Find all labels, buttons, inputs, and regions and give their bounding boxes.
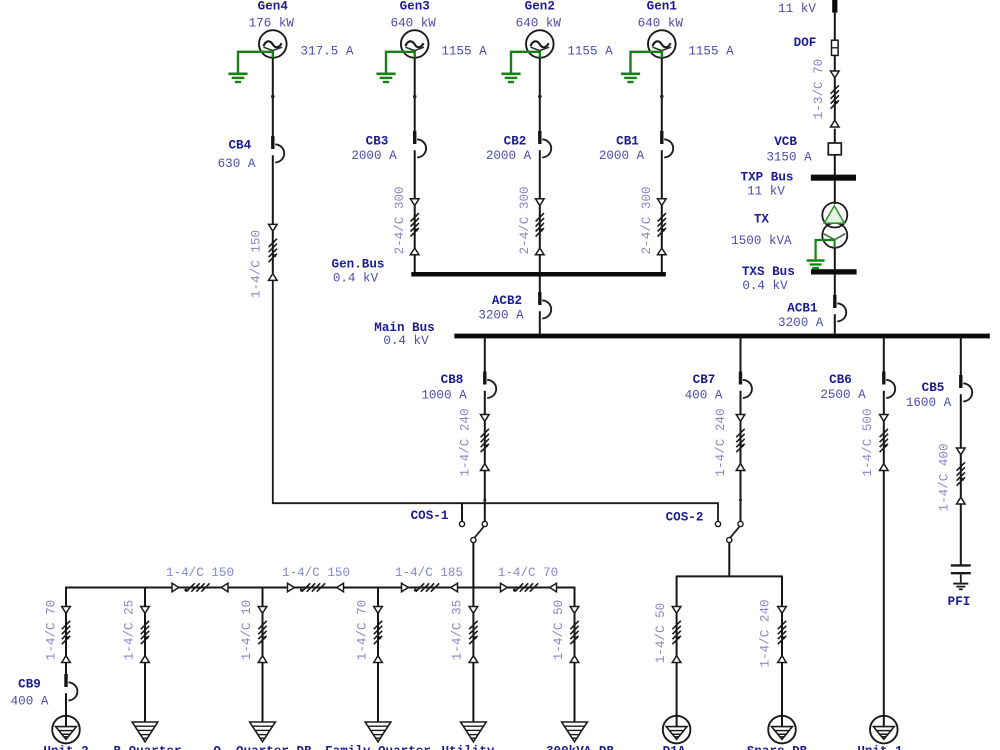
- svg-text:Gen2: Gen2: [525, 0, 555, 14]
- transformer TX (two windings): [822, 203, 847, 248]
- wire CB3 feeder: generator to breaker CB3: [414, 58, 416, 131]
- wire CB4 feeder down and across to COS-2: [273, 280, 718, 521]
- wire branch Utility from distribution line: [472, 587, 474, 607]
- ground wire of Gen4: [238, 52, 273, 73]
- svg-text:COS-2: COS-2: [666, 511, 704, 525]
- wire cable to 300kVA DB load: [574, 663, 576, 723]
- svg-text:1-4/C 50: 1-4/C 50: [654, 603, 668, 663]
- switch COS-1: [459, 521, 487, 542]
- circuit breaker ACB1: [833, 295, 846, 321]
- circuit breaker CB2: [538, 131, 551, 157]
- svg-text:630 A: 630 A: [218, 157, 256, 171]
- svg-text:1-4/C 70: 1-4/C 70: [44, 600, 58, 660]
- wire TXP Bus to transformer TX: [834, 181, 836, 204]
- motor load Unit 2: [52, 716, 80, 744]
- fuse DOF: [832, 40, 839, 55]
- svg-text:0.4 kV: 0.4 kV: [742, 279, 788, 293]
- wire DOF to cable: [834, 55, 836, 71]
- wire cable to Utility load: [472, 663, 474, 723]
- wire branch Unit 2 from distribution line: [65, 587, 67, 607]
- capacitor PFI: [951, 565, 971, 582]
- cable 1-4/C 70 (Family Quarter branch): [374, 607, 383, 663]
- svg-text:D1A: D1A: [663, 744, 686, 750]
- svg-text:1-4/C 25: 1-4/C 25: [122, 600, 136, 660]
- motor load Spare DB: [768, 716, 796, 744]
- cable 1-4/C 185 (distribution line): [402, 583, 458, 592]
- wire Main Bus to breaker CB5: [960, 338, 962, 375]
- svg-text:CB7: CB7: [693, 373, 716, 387]
- switch COS-2: [715, 521, 743, 542]
- cable below CB5 (1-4/C 400): [957, 448, 966, 504]
- circuit breaker CB8: [483, 372, 496, 398]
- wire CB2 cable to Gen.Bus: [539, 255, 541, 273]
- cable 1-4/C 150 (distribution line): [288, 583, 344, 592]
- cable 1-4/C 50 (300kVA DB branch): [570, 607, 579, 663]
- svg-text:2-4/C 300: 2-4/C 300: [518, 186, 532, 254]
- svg-text:2000 A: 2000 A: [486, 149, 532, 163]
- circuit breaker CB5: [959, 375, 972, 401]
- flow dot on CB2 feeder: [538, 95, 542, 99]
- ground symbol of Gen2: [501, 74, 520, 82]
- static load O. Quarter DB: [250, 722, 276, 742]
- flow dot on CB7 wire: [739, 499, 742, 502]
- ground wire of Gen3: [386, 52, 415, 73]
- cable 1-4/C 70 (distribution line): [501, 583, 557, 592]
- circuit breaker VCB (square): [828, 143, 841, 155]
- svg-text:1-4/C 240: 1-4/C 240: [458, 408, 472, 476]
- circuit breaker CB1: [660, 131, 673, 157]
- wire CB7 cable to COS-2 right contact: [740, 471, 742, 522]
- svg-text:3150 A: 3150 A: [766, 151, 812, 165]
- wire Main Bus to breaker CB8: [484, 338, 486, 371]
- svg-text:2000 A: 2000 A: [351, 149, 397, 163]
- cable 1-4/C 25 (B Quarter branch): [141, 607, 150, 663]
- cable below CB6 (1-4/C 500): [880, 415, 889, 471]
- wire branch 300kVA DB from distribution line: [574, 587, 576, 607]
- wire CB5 cable to capacitor PFI: [960, 504, 962, 565]
- static load B Quarter: [132, 722, 158, 742]
- wire CB9 to Unit 2 load: [65, 693, 67, 716]
- ground wire of Gen2: [511, 52, 540, 73]
- motor load Unit 1: [870, 716, 898, 744]
- svg-text:CB4: CB4: [228, 139, 251, 153]
- cable 1-4/C 240 (Spare DB branch): [778, 607, 787, 663]
- wire ACB1 to Main Bus: [834, 314, 836, 334]
- wire cable to D1A load: [676, 663, 678, 717]
- svg-text:2-4/C 300: 2-4/C 300: [393, 186, 407, 254]
- svg-text:0.4 kV: 0.4 kV: [383, 334, 429, 348]
- svg-text:Gen1: Gen1: [647, 0, 678, 14]
- svg-text:1-4/C 10: 1-4/C 10: [240, 600, 254, 660]
- cable below CB1 (2-4/C 300): [658, 199, 667, 255]
- svg-text:1-4/C 150: 1-4/C 150: [282, 566, 350, 580]
- circuit breaker CB9: [64, 674, 77, 700]
- svg-text:3200 A: 3200 A: [778, 316, 824, 330]
- svg-text:CB9: CB9: [18, 677, 41, 691]
- svg-text:CB6: CB6: [829, 373, 852, 387]
- wire branch O. Quarter DB from distribution line: [262, 587, 264, 607]
- svg-text:CB2: CB2: [504, 135, 527, 149]
- ground symbol of Gen1: [621, 74, 640, 82]
- bus TXP Bus 11 kV: [811, 175, 856, 181]
- bus Main Bus 0.4 kV: [454, 334, 990, 339]
- circuit breaker CB7: [739, 372, 752, 398]
- svg-text:176 kW: 176 kW: [249, 17, 295, 31]
- svg-text:Main Bus: Main Bus: [374, 321, 434, 335]
- wire COS-1 to distribution line: [472, 543, 474, 589]
- svg-text:1-4/C 150: 1-4/C 150: [249, 230, 263, 298]
- wire CB6 to cable: [883, 391, 885, 415]
- wire CB3 cable to Gen.Bus: [414, 255, 416, 273]
- wire CB7 to cable: [740, 391, 742, 415]
- cable 1-4/C 10 (O. Quarter DB branch): [258, 607, 267, 663]
- wire CB1 to cable: [661, 150, 663, 199]
- wire tee to Spare DB cable: [781, 576, 783, 607]
- svg-text:Gen3: Gen3: [400, 0, 430, 14]
- svg-text:1-4/C 70: 1-4/C 70: [355, 600, 369, 660]
- cable 1-4/C 35 (Utility branch): [469, 607, 478, 663]
- svg-text:1-4/C 240: 1-4/C 240: [758, 599, 772, 667]
- cable below CB3 (2-4/C 300): [410, 199, 419, 255]
- delta winding symbol of TX: [824, 206, 844, 223]
- wire Gen.Bus to ACB2: [539, 277, 541, 293]
- wire cable to Family Quarter load: [377, 663, 379, 723]
- ground wire of Gen1: [631, 52, 662, 73]
- svg-text:3200 A: 3200 A: [478, 308, 524, 322]
- wire cable to CB9: [65, 663, 67, 675]
- svg-text:PFI: PFI: [948, 595, 971, 609]
- svg-text:TXP Bus: TXP Bus: [741, 171, 794, 185]
- generator Gen3: [401, 30, 429, 58]
- cable 1-4/C 150 (distribution line): [172, 583, 228, 592]
- wire cable to VCB: [834, 129, 836, 143]
- svg-text:1155 A: 1155 A: [441, 45, 487, 59]
- svg-text:1155 A: 1155 A: [688, 45, 734, 59]
- svg-text:1-4/C 50: 1-4/C 50: [552, 600, 566, 660]
- svg-text:DOF: DOF: [794, 36, 817, 50]
- generator Gen1: [648, 30, 676, 58]
- wire TXS Bus to ACB1: [834, 275, 836, 296]
- wire branch Family Quarter from distribution line: [377, 587, 379, 607]
- wire CB4 to cable: [272, 155, 274, 224]
- svg-text:400 A: 400 A: [11, 694, 49, 708]
- svg-text:CB5: CB5: [922, 381, 945, 395]
- wire CB6 cable to Unit 1 load: [883, 471, 885, 717]
- svg-text:ACB2: ACB2: [492, 294, 522, 308]
- ground symbol of TX: [807, 261, 825, 269]
- ground wire of TX: [816, 240, 835, 259]
- wire branch B Quarter from distribution line: [144, 587, 146, 607]
- svg-text:11 kV: 11 kV: [778, 2, 816, 16]
- wire CB1 cable to Gen.Bus: [661, 255, 663, 273]
- flow dot on CB3 feeder: [413, 95, 417, 99]
- svg-text:CB1: CB1: [616, 135, 639, 149]
- svg-text:2000 A: 2000 A: [599, 149, 645, 163]
- ground symbol of PFI: [953, 584, 968, 590]
- svg-text:1-4/C 185: 1-4/C 185: [395, 566, 463, 580]
- svg-text:1-4/C 400: 1-4/C 400: [937, 443, 951, 511]
- wire tee to D1A cable: [676, 576, 678, 607]
- circuit breaker CB4: [271, 136, 284, 162]
- cable below CB4 (1-4/C 150): [269, 224, 278, 280]
- flow dot on CB1 feeder: [660, 95, 664, 99]
- svg-text:11 kV: 11 kV: [747, 184, 785, 198]
- wire CB8 to cable: [484, 391, 486, 415]
- cable 1-4/C 50 (D1A branch): [672, 607, 681, 663]
- svg-text:1-3/C 70: 1-3/C 70: [812, 59, 826, 119]
- cable below CB8 (1-4/C 240): [481, 415, 490, 471]
- generator Gen4: [259, 30, 287, 58]
- svg-text:O. Quarter DB: O. Quarter DB: [213, 744, 312, 750]
- wire cable to O. Quarter DB load: [262, 663, 264, 723]
- wire CB2 to cable: [539, 150, 541, 199]
- wire distribution line (emergency panel bus): [66, 587, 575, 589]
- flow dot on CB8 wire: [483, 499, 486, 502]
- svg-text:1600 A: 1600 A: [906, 396, 952, 410]
- svg-text:1-4/C 35: 1-4/C 35: [450, 600, 464, 660]
- wire cable to B Quarter load: [144, 663, 146, 723]
- svg-text:Gen.Bus: Gen.Bus: [332, 257, 385, 271]
- ground symbol of Gen3: [376, 74, 395, 82]
- svg-text:TXS Bus: TXS Bus: [742, 265, 795, 279]
- cable below CB2 (2-4/C 300): [536, 199, 545, 255]
- bus Gen.Bus 0.4 kV: [411, 272, 666, 277]
- svg-text:2500 A: 2500 A: [820, 388, 866, 402]
- svg-text:Family Quarter: Family Quarter: [325, 744, 431, 750]
- ground symbol of Gen4: [228, 74, 247, 82]
- static load Family Quarter: [365, 722, 391, 742]
- svg-text:CB3: CB3: [366, 135, 389, 149]
- circuit breaker CB3: [413, 131, 426, 157]
- wire CB8 cable to COS-1 right contact: [484, 471, 486, 522]
- svg-text:1000 A: 1000 A: [421, 388, 467, 402]
- bus 11 kV utility stub: [832, 0, 837, 13]
- svg-text:1-4/C 240: 1-4/C 240: [714, 408, 728, 476]
- wire CB2 feeder: generator to breaker CB2: [539, 58, 541, 131]
- wire COS-2 to tee: [728, 543, 730, 577]
- wire stub to COS-1 left contact: [461, 503, 463, 521]
- circuit breaker CB6: [882, 372, 895, 398]
- wire CB3 to cable: [414, 150, 416, 199]
- static load 300kVA DB: [562, 722, 588, 742]
- cable 1-3/C 70: [831, 71, 840, 127]
- cable 1-4/C 70 (Unit 2 branch): [62, 607, 71, 663]
- wire Main Bus to breaker CB7: [740, 338, 742, 371]
- svg-text:Unit 1: Unit 1: [857, 744, 903, 750]
- svg-text:ACB1: ACB1: [787, 301, 818, 315]
- wye winding symbol of TX: [823, 234, 845, 249]
- static load Utility: [461, 722, 487, 742]
- svg-text:COS-1: COS-1: [411, 509, 449, 523]
- svg-text:TX: TX: [754, 212, 770, 226]
- circuit breaker ACB2: [538, 292, 551, 318]
- svg-text:2-4/C 300: 2-4/C 300: [640, 186, 654, 254]
- svg-text:640 kW: 640 kW: [516, 17, 562, 31]
- wire COS-2 tee horizontal: [677, 575, 782, 577]
- generator Gen2: [526, 30, 554, 58]
- bus TXS Bus 0.4 kV: [811, 269, 857, 274]
- svg-text:Utility: Utility: [442, 744, 495, 750]
- svg-text:1500 kVA: 1500 kVA: [731, 234, 792, 248]
- wire CB1 feeder: generator to breaker CB1: [661, 58, 663, 131]
- wire CB5 to cable: [960, 394, 962, 448]
- svg-text:317.5 A: 317.5 A: [301, 45, 354, 59]
- svg-text:Gen4: Gen4: [258, 0, 289, 14]
- wire ACB2 to Main Bus: [539, 311, 541, 334]
- wire VCB to TXP Bus: [834, 155, 836, 175]
- wire Main Bus to breaker CB6: [883, 338, 885, 371]
- svg-text:1155 A: 1155 A: [567, 45, 613, 59]
- svg-text:1-4/C 150: 1-4/C 150: [166, 566, 234, 580]
- svg-text:B Quarter: B Quarter: [113, 744, 181, 750]
- svg-text:Unit 2: Unit 2: [43, 744, 88, 750]
- svg-text:0.4 kV: 0.4 kV: [333, 272, 379, 286]
- wire cable to Spare DB load: [781, 663, 783, 717]
- wire CB4 feeder: generator to breaker CB4: [272, 58, 274, 136]
- svg-text:640 kW: 640 kW: [638, 17, 684, 31]
- svg-text:1-4/C 500: 1-4/C 500: [861, 408, 875, 476]
- flow dot on CB4 feeder: [271, 95, 275, 99]
- svg-text:400 A: 400 A: [685, 388, 723, 402]
- svg-text:300kVA DB: 300kVA DB: [546, 744, 614, 750]
- svg-text:640 kW: 640 kW: [391, 17, 437, 31]
- wire TX to TXS Bus: [834, 248, 836, 270]
- svg-text:Spare DB: Spare DB: [747, 744, 808, 750]
- svg-text:VCB: VCB: [774, 135, 797, 149]
- motor load D1A: [663, 716, 691, 744]
- svg-text:CB8: CB8: [441, 373, 464, 387]
- cable below CB7 (1-4/C 240): [736, 415, 745, 471]
- wire utility bus to fuse DOF: [834, 13, 836, 41]
- svg-text:1-4/C 70: 1-4/C 70: [498, 566, 558, 580]
